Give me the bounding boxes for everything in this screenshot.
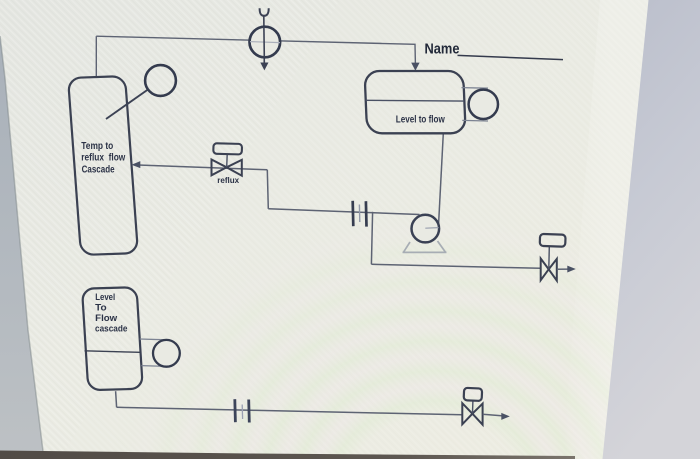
wire: top header to drum	[96, 36, 415, 64]
svg-text:Level: Level	[95, 292, 115, 303]
vessel T2 indicator stubs	[140, 339, 166, 366]
arrow into column	[132, 161, 141, 168]
Name label	[425, 41, 564, 60]
wire: bottoms stub	[116, 391, 117, 407]
svg-text:Cascade: Cascade	[82, 164, 116, 175]
svg-text:Temp to: Temp to	[81, 141, 113, 152]
valve V2 stem	[548, 247, 551, 269]
wire: column riser	[95, 36, 97, 77]
wire: reflux line to column	[138, 165, 267, 170]
orifice plate 1	[353, 201, 367, 227]
vessel T2 label	[95, 292, 128, 335]
svg-text:reflux flow: reflux flow	[81, 153, 125, 164]
wire: arrow segment after V3	[483, 414, 503, 416]
flow element FE vertical arrow	[260, 16, 268, 71]
arrow distillate out	[567, 266, 576, 273]
control valve V2 bowtie	[541, 259, 557, 281]
control valve V3 bowtie	[462, 403, 482, 425]
wire: pump suction line	[268, 209, 419, 215]
drum D1 label	[396, 114, 445, 125]
control valve reflux bowtie	[212, 160, 242, 176]
valve reflux label	[217, 175, 239, 185]
vessel T2 indicator circle	[153, 340, 180, 367]
drum D1 mid line	[366, 99, 464, 102]
orifice plate 2	[235, 399, 250, 422]
wire: distillate discharge line	[371, 264, 540, 268]
left bezel strip	[0, 36, 44, 459]
flow element FE top hook	[260, 8, 269, 16]
vessel T2 bottom	[82, 287, 143, 390]
valve reflux stem	[226, 154, 229, 167]
pump P1 base	[403, 241, 447, 252]
right bezel gray area	[603, 0, 700, 459]
arrow bottoms out	[501, 413, 510, 420]
vessel T2 mid line	[85, 351, 141, 353]
valve V2 actuator	[540, 234, 566, 247]
svg-text:To: To	[95, 303, 107, 314]
svg-text:Flow: Flow	[95, 313, 118, 324]
valve V3 actuator	[464, 388, 483, 401]
drum level indicator circle	[469, 90, 498, 119]
bottom dark bezel strip	[0, 451, 575, 459]
bright band near screen right edge	[562, 0, 649, 459]
svg-text:cascade: cascade	[95, 324, 128, 335]
drum level indicator stubs	[462, 88, 489, 121]
svg-text:Level to flow: Level to flow	[396, 114, 445, 125]
wire: bottoms line	[117, 407, 462, 415]
svg-text:reflux: reflux	[217, 175, 239, 185]
svg-text:Name: Name	[425, 41, 460, 58]
valve V3 stem	[472, 401, 474, 414]
wire: arrow segment after V2	[557, 268, 569, 270]
flow element FE circle	[249, 27, 280, 58]
pump P1 circle	[412, 215, 440, 243]
drum D1	[365, 71, 466, 133]
wire: drum outlet drop	[439, 134, 444, 224]
indicator circle on column	[106, 65, 176, 119]
valve reflux actuator	[213, 143, 242, 154]
vessel T1 column	[68, 76, 138, 255]
wire: reflux line vertical	[267, 170, 268, 209]
wire: branch down from suction	[371, 212, 372, 264]
arrow into drum top	[411, 63, 419, 71]
vessel T1 label	[81, 141, 125, 175]
